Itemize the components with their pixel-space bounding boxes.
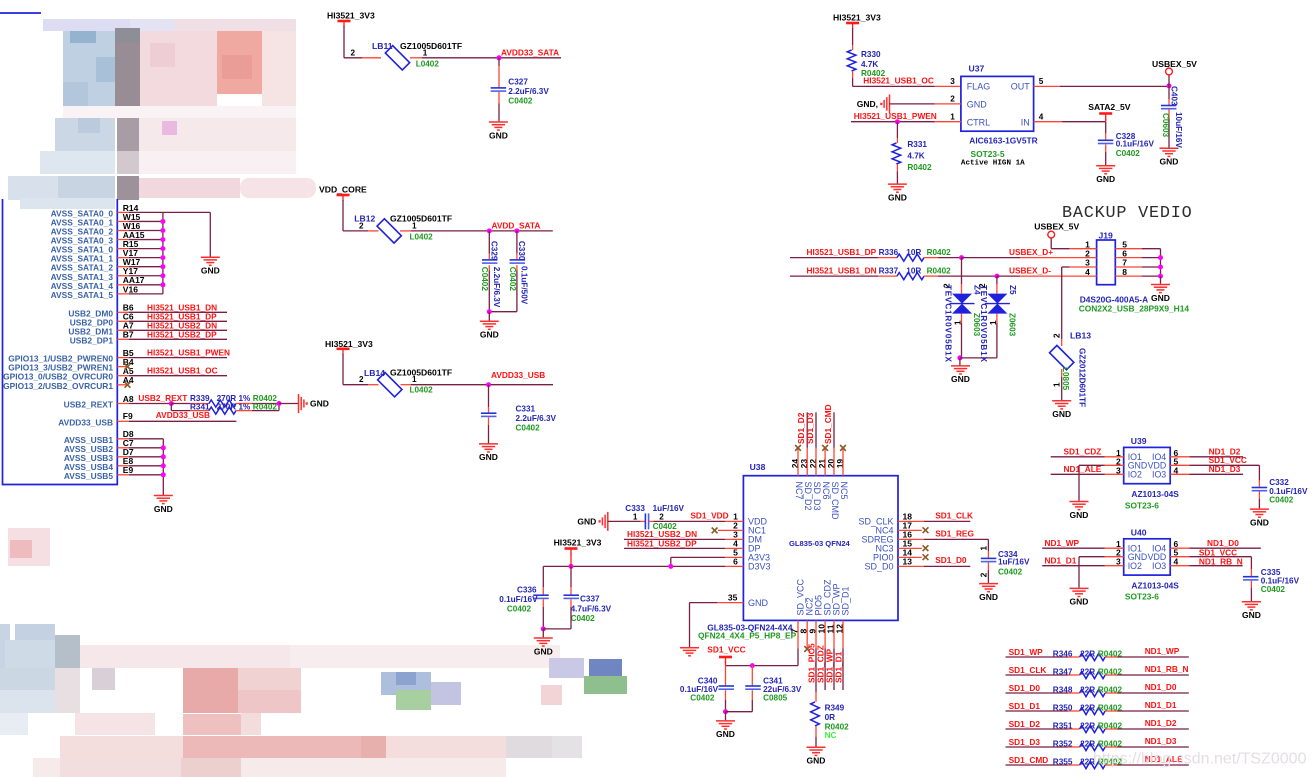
no-connect X pin A4 bbox=[125, 382, 131, 388]
svg-text:ND1_D0: ND1_D0 bbox=[1145, 682, 1177, 692]
no-connect X pin8 bbox=[804, 646, 810, 652]
pin 5 stub bbox=[1115, 248, 1141, 250]
svg-text:LB14: LB14 bbox=[364, 368, 385, 378]
pin 19 stub bbox=[842, 448, 844, 476]
svg-text:R0402: R0402 bbox=[1098, 722, 1123, 731]
svg-text:GND: GND bbox=[1242, 610, 1261, 620]
pin 7 stub bbox=[1115, 266, 1141, 268]
wire net SD1_D1 bbox=[842, 648, 844, 690]
svg-text:8: 8 bbox=[1122, 267, 1127, 277]
wire net HI3521_USB1_DP bbox=[790, 257, 878, 259]
svg-text:5: 5 bbox=[1039, 77, 1044, 86]
junction bbox=[497, 55, 502, 60]
junction bbox=[277, 401, 282, 406]
ground stub GND (REXT) bbox=[298, 394, 300, 413]
svg-text:R0402: R0402 bbox=[927, 267, 952, 276]
resistor R351 22R (SD1_D2 to ND1_D2) bbox=[1006, 728, 1069, 730]
svg-text:USB2_REXT: USB2_REXT bbox=[138, 393, 187, 403]
no-connect X pin17 NC4 bbox=[898, 529, 922, 531]
wire net SD1_CDZ bbox=[824, 648, 826, 690]
no-connect X bbox=[822, 445, 828, 451]
svg-text:F9: F9 bbox=[123, 411, 133, 421]
pin 22 stub bbox=[815, 448, 817, 476]
resistor R330 4.7K bbox=[852, 45, 854, 50]
svg-text:C0402: C0402 bbox=[480, 267, 489, 292]
svg-text:C329: C329 bbox=[489, 241, 498, 261]
svg-text:GND: GND bbox=[1070, 510, 1089, 520]
svg-text:2: 2 bbox=[659, 513, 664, 522]
svg-text:C331: C331 bbox=[516, 405, 536, 414]
svg-text:35: 35 bbox=[728, 592, 738, 602]
svg-text:GND: GND bbox=[1160, 157, 1179, 167]
wire bbox=[343, 26, 345, 58]
junction bbox=[160, 282, 165, 287]
svg-text:C330: C330 bbox=[517, 241, 526, 261]
svg-text:R349: R349 bbox=[825, 703, 845, 712]
svg-text:SOT23-6: SOT23-6 bbox=[1125, 500, 1159, 510]
resistor R336 10R bbox=[878, 257, 897, 259]
svg-text:1: 1 bbox=[979, 546, 988, 551]
svg-text:22R: 22R bbox=[1080, 686, 1095, 695]
junction bbox=[161, 472, 166, 477]
svg-text:R348: R348 bbox=[1053, 686, 1073, 695]
svg-text:C0805: C0805 bbox=[763, 694, 788, 703]
svg-text:HI3521_USB1_PWEN: HI3521_USB1_PWEN bbox=[147, 348, 230, 358]
ground GND (C335) bbox=[1242, 601, 1261, 603]
svg-text:2.2uF/6.3V: 2.2uF/6.3V bbox=[516, 414, 557, 423]
AVSS_SATA gnd bus wire bbox=[162, 212, 164, 293]
svg-text:AVDD33_USB: AVDD33_USB bbox=[491, 370, 545, 380]
wire net HI3521_USB1_DN bbox=[129, 311, 227, 313]
svg-text:ND1_WP: ND1_WP bbox=[1045, 538, 1080, 548]
svg-text:4.7K: 4.7K bbox=[861, 60, 878, 69]
junction bbox=[160, 255, 165, 260]
pin 7 stub bbox=[797, 620, 799, 648]
capacitor C331 2.2uF/6.3V bbox=[488, 385, 490, 407]
pin 1 stub bbox=[401, 384, 412, 386]
svg-text:Z5: Z5 bbox=[1008, 285, 1017, 295]
pin 2 stub bbox=[368, 384, 379, 386]
svg-text:V16: V16 bbox=[123, 284, 138, 294]
svg-text:C337: C337 bbox=[580, 595, 600, 604]
resistor R339 270R 1% bbox=[171, 403, 190, 405]
capacitor C329 2.2uF/6.3V (rotated) bbox=[488, 231, 490, 254]
svg-text:GND: GND bbox=[951, 374, 970, 384]
ground GND (R331) bbox=[888, 183, 907, 185]
svg-text:SD1_D1: SD1_D1 bbox=[834, 651, 844, 683]
censor mosaic bottom-left bbox=[8, 528, 50, 566]
svg-text:C0402: C0402 bbox=[508, 267, 517, 292]
junction bbox=[1158, 265, 1163, 270]
svg-text:R0402: R0402 bbox=[253, 394, 278, 403]
resistor R341 270R 1% bbox=[170, 404, 172, 411]
wire net SD1_VCC (U39) bbox=[1170, 464, 1189, 466]
svg-text:GND: GND bbox=[1096, 174, 1115, 184]
wire net SD1_PIO5 to R349 bbox=[815, 648, 817, 692]
ground GND (J19) bbox=[1151, 284, 1170, 286]
gnd bus wire bbox=[1160, 249, 1162, 276]
wire bus to gnd bbox=[163, 211, 210, 213]
svg-text:1: 1 bbox=[950, 112, 955, 121]
ground GND (AVSS_SATA) bbox=[201, 256, 220, 258]
svg-text:CTRL: CTRL bbox=[967, 118, 991, 128]
svg-text:10uF/16V: 10uF/16V bbox=[1174, 112, 1183, 148]
AVSS_USB gnd bus wire bbox=[162, 439, 164, 495]
IC U38 GL835-03 QFN24 bbox=[743, 476, 898, 621]
svg-text:IO2: IO2 bbox=[1128, 561, 1142, 571]
wire net SD1_WP bbox=[833, 648, 835, 690]
pin 1 stub bbox=[410, 57, 422, 59]
pin 11 stub bbox=[833, 620, 835, 648]
svg-text:AZ1013-04S: AZ1013-04S bbox=[1131, 580, 1179, 590]
svg-text:ND1_D1: ND1_D1 bbox=[1145, 700, 1177, 710]
svg-text:HI3521_USB2_DP: HI3521_USB2_DP bbox=[147, 329, 217, 339]
capacitor C336 0.1uF/16V bbox=[542, 566, 544, 587]
svg-text:NC7: NC7 bbox=[794, 482, 804, 500]
svg-text:D3V3: D3V3 bbox=[748, 562, 771, 572]
pin2 gnd wire bbox=[1079, 464, 1105, 466]
svg-text:FLAG: FLAG bbox=[967, 82, 991, 92]
resistor R337 10R bbox=[878, 275, 897, 277]
capacitor C340 0.1uF/16V bbox=[725, 666, 727, 686]
svg-text:SD1_CDZ: SD1_CDZ bbox=[1064, 447, 1102, 457]
svg-text:R0402: R0402 bbox=[907, 163, 932, 172]
svg-text:GND: GND bbox=[1250, 517, 1269, 527]
svg-text:A8: A8 bbox=[123, 394, 134, 404]
svg-text:0.1uF/16V: 0.1uF/16V bbox=[680, 685, 719, 694]
pin 1 stub CTRL bbox=[935, 121, 961, 123]
capacitor C333 1uF/16V bbox=[608, 520, 641, 522]
svg-text:22uF/6.3V: 22uF/6.3V bbox=[763, 685, 802, 694]
svg-text:IO2: IO2 bbox=[1128, 470, 1142, 480]
ground GND (AVSS_USB) bbox=[154, 495, 173, 497]
svg-text:22R: 22R bbox=[1080, 740, 1095, 749]
svg-text:USBEX_5V: USBEX_5V bbox=[1152, 59, 1197, 69]
svg-text:0.1uF/16V: 0.1uF/16V bbox=[499, 595, 538, 604]
junction bbox=[160, 219, 165, 224]
ferrite bead LB11 GZ1005D601TF bbox=[385, 46, 409, 70]
svg-text:IN: IN bbox=[1021, 118, 1030, 128]
svg-text:2.2uF/6.3V: 2.2uF/6.3V bbox=[492, 267, 501, 308]
svg-text:R0402: R0402 bbox=[1098, 650, 1123, 659]
svg-text:CON2X2_USB_28P9X9_H14: CON2X2_USB_28P9X9_H14 bbox=[1079, 304, 1190, 314]
svg-text:IO3: IO3 bbox=[1152, 561, 1166, 571]
pin 16 stub / wire net SD1_REG bbox=[898, 538, 924, 540]
ferrite bead LB13 GZ2012D601TF bbox=[1061, 339, 1063, 346]
junction bbox=[161, 445, 166, 450]
pin 8 stub bbox=[1115, 275, 1141, 277]
wire net USB2_REXT bbox=[129, 403, 172, 405]
junction bbox=[160, 246, 165, 251]
wire net HI3521_USB1_PWEN bbox=[851, 121, 935, 123]
svg-text:22R: 22R bbox=[1080, 668, 1095, 677]
svg-text:270R 1%: 270R 1% bbox=[217, 403, 251, 412]
wire net AVDD33_USB bbox=[411, 384, 553, 386]
svg-text:USBEX_D-: USBEX_D- bbox=[1009, 266, 1051, 276]
svg-text:J19: J19 bbox=[1099, 231, 1114, 241]
svg-text:C0402: C0402 bbox=[998, 568, 1023, 577]
svg-text:AVDD33_USB: AVDD33_USB bbox=[156, 410, 210, 420]
svg-text:AIC6163-1GV5TR: AIC6163-1GV5TR bbox=[969, 136, 1037, 146]
wire net HI3521_USB1_OC bbox=[853, 85, 935, 87]
svg-text:AVSS_USB5: AVSS_USB5 bbox=[64, 471, 114, 481]
svg-text:SD1_CLK: SD1_CLK bbox=[1009, 665, 1047, 675]
ground GND (U38 pin35) bbox=[680, 647, 699, 649]
svg-text:GND: GND bbox=[716, 729, 735, 739]
ground stub GND (C333) bbox=[607, 512, 609, 531]
ground GND (LB13) bbox=[1052, 400, 1071, 402]
svg-text:LB13: LB13 bbox=[1070, 330, 1091, 340]
pin 9 stub bbox=[815, 620, 817, 648]
svg-text:SD1_CLK: SD1_CLK bbox=[935, 511, 973, 521]
svg-text:1uF/16V: 1uF/16V bbox=[998, 558, 1030, 567]
junction bbox=[1158, 274, 1163, 279]
svg-text:GND: GND bbox=[534, 646, 553, 656]
svg-text:GND: GND bbox=[489, 130, 508, 140]
pin2 gnd wire bbox=[1079, 556, 1105, 558]
svg-text:AVSS_SATA1_5: AVSS_SATA1_5 bbox=[51, 290, 114, 300]
svg-text:C0402: C0402 bbox=[1269, 496, 1294, 505]
svg-text:GND: GND bbox=[479, 452, 498, 462]
pin 23 stub bbox=[806, 448, 808, 476]
svg-text:SD1_D2: SD1_D2 bbox=[1009, 719, 1041, 729]
wire HI3521_3V3 rail to pin6 bbox=[543, 565, 725, 567]
wire bbox=[342, 354, 344, 385]
resistor R350 22R (SD1_D1 to ND1_D1) bbox=[1006, 710, 1069, 712]
junction bbox=[486, 382, 491, 387]
svg-text:Active HIGN 1A: Active HIGN 1A bbox=[961, 160, 1025, 168]
svg-text:HI3521_USB1_DN: HI3521_USB1_DN bbox=[807, 266, 877, 276]
svg-text:ND1_D0: ND1_D0 bbox=[1207, 538, 1239, 548]
svg-text:1: 1 bbox=[1053, 382, 1062, 387]
pin 2 stub bbox=[362, 57, 381, 59]
svg-text:E9: E9 bbox=[123, 465, 134, 475]
svg-text:GND: GND bbox=[1151, 293, 1170, 303]
svg-text:ND1_ALE: ND1_ALE bbox=[1064, 464, 1102, 474]
svg-text:ND1_D3: ND1_D3 bbox=[1145, 736, 1177, 746]
censor mosaic top-left bbox=[43, 19, 130, 31]
wire bbox=[852, 28, 854, 45]
svg-text:GZ1005D601TF: GZ1005D601TF bbox=[400, 41, 462, 51]
junction bbox=[895, 119, 900, 124]
svg-text:0.1uF/16V: 0.1uF/16V bbox=[1261, 576, 1300, 585]
svg-text:10R: 10R bbox=[906, 248, 921, 257]
svg-text:HI3521_3V3: HI3521_3V3 bbox=[833, 13, 881, 23]
svg-text:R336: R336 bbox=[879, 248, 899, 257]
svg-text:4.7uF/6.3V: 4.7uF/6.3V bbox=[571, 605, 612, 614]
svg-text:10R: 10R bbox=[906, 267, 921, 276]
ground GND (R349) bbox=[807, 746, 826, 748]
svg-text:C327: C327 bbox=[508, 77, 528, 86]
wire net HI3521_USB2_DN bbox=[129, 329, 227, 331]
wire pin2 bbox=[890, 103, 935, 105]
svg-text:0.1uF/50V: 0.1uF/50V bbox=[520, 266, 529, 305]
junction bbox=[569, 564, 574, 569]
pin 2 stub bbox=[368, 230, 379, 232]
wire to gnd stub bbox=[279, 403, 298, 405]
svg-text:Z0603: Z0603 bbox=[1008, 313, 1017, 337]
junction bbox=[959, 255, 964, 260]
svg-text:R330: R330 bbox=[861, 50, 881, 59]
wire net HI3521_USB1_PWEN bbox=[129, 357, 227, 359]
svg-text:GND: GND bbox=[1052, 409, 1071, 419]
capacitor C337 4.7uF/6.3V bbox=[570, 566, 572, 587]
svg-text:OUT: OUT bbox=[1011, 82, 1031, 92]
resistor R349 0R NC bbox=[815, 692, 817, 702]
svg-text:22R: 22R bbox=[1080, 722, 1095, 731]
junction bbox=[957, 355, 962, 360]
ground GND (C340/C341) bbox=[725, 712, 727, 721]
wire pin3 to LB13 bbox=[1062, 266, 1070, 268]
capacitor C403 10uF/16V (rotated) bbox=[1168, 86, 1170, 99]
svg-text:C0402: C0402 bbox=[516, 424, 541, 433]
svg-text:GZ2012D601TF: GZ2012D601TF bbox=[1077, 348, 1086, 407]
svg-text:22R: 22R bbox=[1080, 704, 1095, 713]
ground GND (C329/C330) bbox=[488, 312, 490, 321]
svg-text:GND: GND bbox=[201, 266, 220, 276]
ground GND (C336/C337) bbox=[542, 629, 544, 637]
svg-text:4.7K: 4.7K bbox=[907, 152, 924, 161]
svg-text:1: 1 bbox=[954, 320, 963, 325]
wire net ND1_D0 bbox=[1170, 547, 1189, 549]
no-connect X pin B4 bbox=[125, 364, 131, 370]
pin 13 stub / wire net SD1_D0 bbox=[898, 565, 924, 567]
svg-text:AZ1013-04S: AZ1013-04S bbox=[1131, 489, 1179, 499]
svg-text:SATA2_5V: SATA2_5V bbox=[1088, 102, 1130, 112]
svg-text:ND1_RB_N: ND1_RB_N bbox=[1199, 557, 1243, 567]
pin 4 stub IN bbox=[1034, 121, 1063, 123]
junction bbox=[750, 663, 755, 668]
svg-text:SD1_D3: SD1_D3 bbox=[1009, 737, 1041, 747]
svg-text:L0402: L0402 bbox=[410, 232, 434, 241]
wire net AVDD_SATA bbox=[411, 230, 553, 232]
wire IN to SATA2_5V bbox=[1062, 121, 1106, 123]
resistor R348 22R (SD1_D0 to ND1_D0) bbox=[1006, 692, 1069, 694]
svg-text:C0402: C0402 bbox=[508, 96, 533, 105]
svg-text:C0402: C0402 bbox=[571, 614, 596, 623]
svg-text:AVDD33_SATA: AVDD33_SATA bbox=[501, 48, 559, 58]
pin 35 GND wire bbox=[717, 602, 743, 604]
wire bbox=[1142, 266, 1161, 268]
pin 3 stub FLAG bbox=[935, 85, 961, 87]
svg-text:HI3521_USB2_DP: HI3521_USB2_DP bbox=[627, 538, 697, 548]
ground GND (C403) bbox=[1160, 147, 1179, 149]
capacitor C334 1uF/16V bbox=[987, 539, 989, 551]
svg-text:1: 1 bbox=[412, 221, 417, 230]
pin 8 stub bbox=[806, 620, 808, 648]
connector J19 D4S20G-400A5-A bbox=[1097, 240, 1116, 285]
wire net SD1_D3 bbox=[815, 412, 817, 448]
junction bbox=[541, 626, 546, 631]
capacitor C327 2.2uF/6.3V bbox=[498, 58, 500, 66]
capacitor C328 0.1uF/16V bbox=[1105, 122, 1107, 133]
no-connect X bbox=[840, 445, 846, 451]
svg-text:SD1_D0: SD1_D0 bbox=[1009, 683, 1041, 693]
svg-text:R350: R350 bbox=[1053, 704, 1073, 713]
svg-text:1: 1 bbox=[423, 49, 428, 58]
svg-text:22R: 22R bbox=[1080, 650, 1095, 659]
pin 18 stub / wire net SD1_CLK bbox=[898, 520, 924, 522]
wire net ND1_WP bbox=[1042, 547, 1104, 549]
wire net USBEX_D+ bbox=[962, 257, 1021, 259]
svg-text:AVDD33_USB: AVDD33_USB bbox=[58, 417, 113, 427]
wire net ND1_D1 bbox=[1042, 565, 1104, 567]
ground GND (U40 pin2) bbox=[1070, 587, 1089, 589]
TVS diode Z5 TEVC1R0V05B1X bbox=[996, 276, 998, 284]
ground GND (Z4/Z5) bbox=[959, 358, 961, 365]
svg-text:1: 1 bbox=[412, 375, 417, 384]
svg-text:SD1_D0: SD1_D0 bbox=[935, 555, 967, 565]
svg-text:SD1_WP: SD1_WP bbox=[1009, 647, 1044, 657]
svg-text:NC5: NC5 bbox=[839, 482, 849, 500]
wire net SD1_CDZ bbox=[1051, 456, 1105, 458]
capacitor C330 0.1uF/50V (rotated) bbox=[516, 231, 518, 254]
svg-text:SD_D1: SD_D1 bbox=[841, 586, 851, 615]
wire net ND1_D2 bbox=[1170, 456, 1189, 458]
IC U39 AZ1013-04S bbox=[1124, 447, 1171, 483]
svg-text:HI3521_USB1_DP: HI3521_USB1_DP bbox=[807, 247, 877, 257]
svg-text:C333: C333 bbox=[625, 504, 645, 513]
resistor R355 22R (SD1_CMD to ND1_ALE) bbox=[1006, 764, 1069, 766]
junction bbox=[514, 228, 519, 233]
svg-text:NC6: NC6 bbox=[821, 482, 831, 500]
svg-text:USBEX_5V: USBEX_5V bbox=[1034, 222, 1079, 232]
no-connect X pin2 NC1 bbox=[718, 529, 743, 531]
svg-text:1uF/16V: 1uF/16V bbox=[653, 504, 685, 513]
svg-text:2.2uF/6.3V: 2.2uF/6.3V bbox=[508, 87, 549, 96]
svg-text:R0402: R0402 bbox=[1098, 704, 1123, 713]
wire net USBEX_D- bbox=[997, 275, 1020, 277]
svg-text:L0805: L0805 bbox=[1061, 367, 1070, 391]
wire net ND1_ALE bbox=[1051, 473, 1105, 475]
svg-text:U38: U38 bbox=[750, 462, 766, 472]
ground GND (C331) bbox=[479, 443, 498, 445]
svg-text:2: 2 bbox=[950, 95, 955, 104]
svg-text:GND: GND bbox=[748, 598, 769, 608]
svg-text:ND1_D3: ND1_D3 bbox=[1209, 464, 1241, 474]
wire OUT to USBEX_5V bbox=[1060, 85, 1169, 87]
svg-text:SD1_D1: SD1_D1 bbox=[1009, 701, 1041, 711]
wire net AVDD33_SATA bbox=[422, 57, 561, 59]
IC U40 AZ1013-04S bbox=[1124, 539, 1171, 575]
ground GND (C327) bbox=[489, 121, 508, 123]
svg-text:SD1_VCC: SD1_VCC bbox=[707, 644, 745, 654]
wire bbox=[1142, 257, 1161, 259]
ferrite bead LB14 GZ1005D601TF bbox=[378, 373, 402, 397]
svg-text:SOT23-5: SOT23-5 bbox=[971, 149, 1005, 159]
TVS diode Z4 TEVC1R0V05B1X bbox=[961, 258, 963, 284]
ground GND (C332) bbox=[1250, 508, 1269, 510]
svg-text:TEVC1R0V05B1X: TEVC1R0V05B1X bbox=[979, 285, 988, 363]
svg-text:L0402: L0402 bbox=[416, 60, 440, 69]
resistor R347 22R (SD1_CLK to ND1_RB_N) bbox=[1006, 674, 1069, 676]
svg-text:4: 4 bbox=[1039, 112, 1044, 121]
svg-text:2: 2 bbox=[351, 49, 356, 58]
svg-text:R351: R351 bbox=[1053, 722, 1073, 731]
svg-text:GND: GND bbox=[154, 504, 173, 514]
wire to pin1 bbox=[1050, 238, 1052, 249]
junction bbox=[994, 274, 999, 279]
svg-text:SD1_D3: SD1_D3 bbox=[805, 412, 815, 444]
pin 24 stub bbox=[797, 448, 799, 476]
svg-text:HI3521_USB1_PWEN: HI3521_USB1_PWEN bbox=[854, 111, 937, 121]
junction bbox=[487, 309, 492, 314]
svg-text:USBEX_D+: USBEX_D+ bbox=[1009, 247, 1053, 257]
svg-text:USB2_DP1: USB2_DP1 bbox=[70, 335, 114, 345]
wire net HI3521_USB2_DP bbox=[624, 547, 725, 549]
svg-text:SD_D2: SD_D2 bbox=[803, 482, 813, 511]
svg-text:BACKUP VEDIO: BACKUP VEDIO bbox=[1062, 204, 1192, 223]
